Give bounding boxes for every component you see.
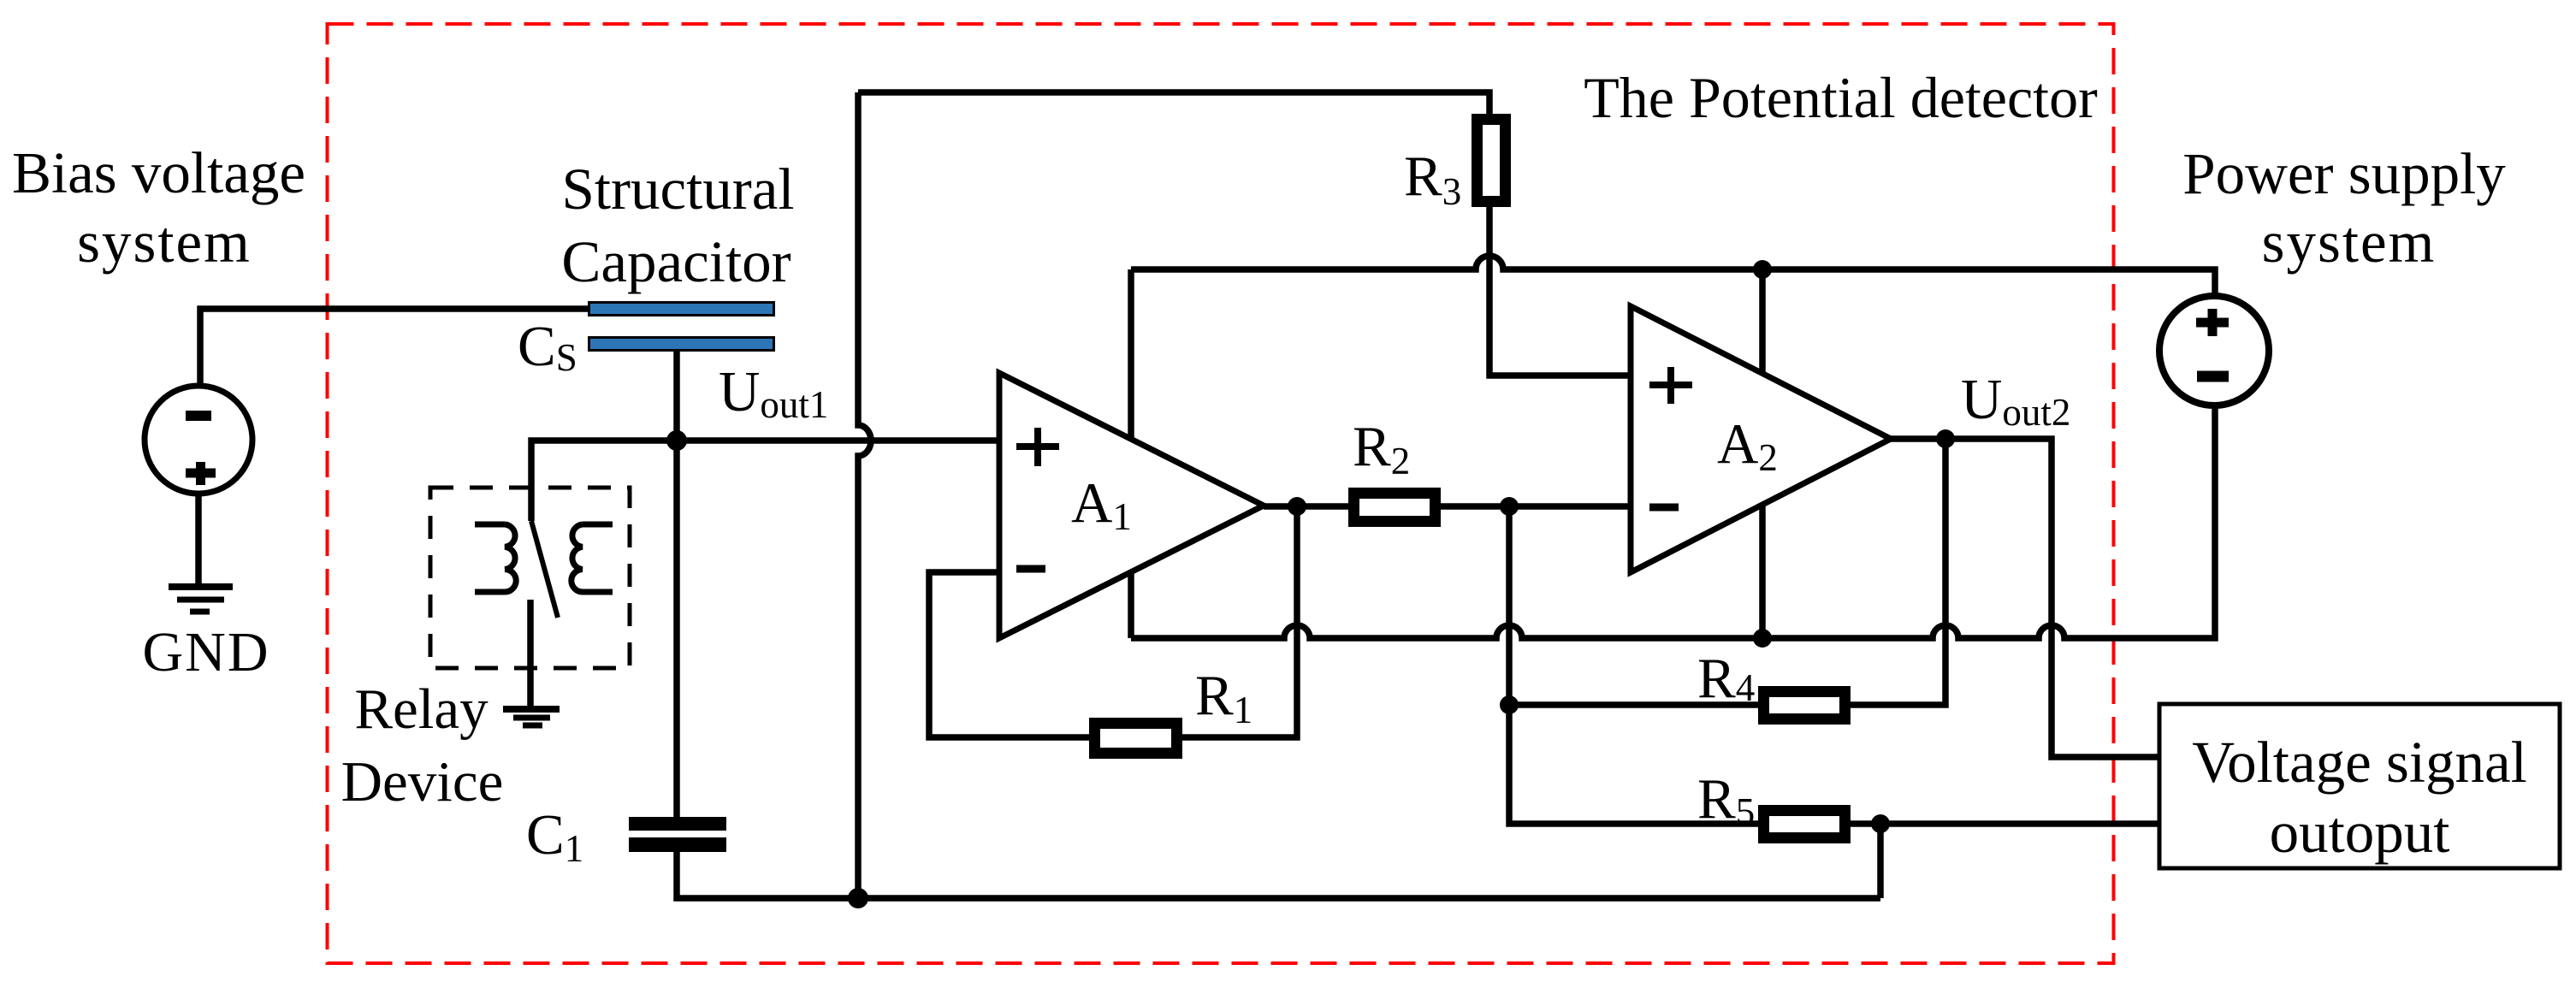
A1 V+ pin bbox=[1128, 269, 1134, 439]
op-amp A2 triangle bbox=[1631, 306, 1891, 572]
svg-text:Structural: Structural bbox=[561, 157, 794, 222]
power supply circle bbox=[2159, 296, 2269, 405]
wire R4 to Uout2 vertical bbox=[1851, 439, 1945, 705]
node Uout2 bbox=[1936, 429, 1955, 448]
svg-text:Capacitor: Capacitor bbox=[561, 229, 791, 294]
node Uout1 bbox=[666, 430, 687, 451]
wire R2 to A2 - input bbox=[1441, 503, 1631, 510]
capacitor C1 lower wire and bottom net bbox=[677, 852, 1880, 898]
svg-text:system: system bbox=[77, 210, 252, 275]
svg-text:The Potential detector: The Potential detector bbox=[1584, 65, 2098, 130]
plus sign in V1 bbox=[186, 462, 216, 485]
voltage source V1 (bias) bbox=[145, 386, 252, 494]
svg-text:Voltage signal: Voltage signal bbox=[2192, 730, 2527, 795]
A1 + symbol bbox=[1016, 428, 1059, 466]
plus sign in power supply bbox=[2196, 309, 2229, 336]
relay switch blade bbox=[531, 521, 558, 618]
negative supply rail with hops bbox=[1131, 405, 2215, 638]
node A2 V- on negative rail bbox=[1753, 629, 1772, 648]
relay coil right bbox=[583, 524, 613, 592]
wire node to R4 bbox=[1509, 701, 1758, 708]
node R4 left branch bbox=[1500, 695, 1519, 714]
relay switch lower contact bbox=[527, 600, 534, 707]
A1 - symbol bbox=[1016, 565, 1045, 573]
capacitor Cs top plate bbox=[589, 303, 774, 316]
A2 V+ pin bbox=[1759, 269, 1766, 374]
A2 - symbol bbox=[1649, 504, 1679, 512]
vertical net from R2 node down to R5 bbox=[1509, 506, 1758, 824]
resistor R5 body bbox=[1764, 811, 1845, 838]
svg-text:GND: GND bbox=[143, 621, 270, 683]
capacitor Cs bottom plate bbox=[589, 338, 774, 351]
A1 V- pin bbox=[1128, 572, 1134, 638]
relay coil left bbox=[475, 524, 505, 592]
wire R5 to box bbox=[1851, 820, 2159, 827]
A2 + symbol bbox=[1649, 367, 1692, 404]
wire R5 node down to bottom net bbox=[1877, 824, 1884, 898]
long vertical net with hop over Uout1 wire bbox=[858, 92, 871, 898]
minus sign in V1 bbox=[186, 411, 211, 421]
ground GND bbox=[169, 583, 233, 590]
node A1 output bbox=[1288, 497, 1306, 516]
wire V1 to ground bbox=[195, 494, 202, 583]
wire bias source to Cs top plate bbox=[200, 309, 588, 387]
positive supply rail with hop over R3 wire bbox=[1131, 256, 2215, 296]
svg-text:Power supply: Power supply bbox=[2182, 141, 2506, 206]
minus sign in power supply bbox=[2197, 371, 2229, 382]
A1 output wire to R2 bbox=[1264, 503, 1348, 510]
node A2 V+ on positive rail bbox=[1753, 260, 1772, 279]
resistor R4 body bbox=[1764, 692, 1845, 719]
resistor R3 body bbox=[1477, 120, 1506, 202]
svg-text:outoput: outoput bbox=[2270, 800, 2450, 865]
svg-text:system: system bbox=[2262, 210, 2437, 275]
ground under relay bbox=[503, 706, 560, 713]
node R2 right / A2 inverting input bbox=[1500, 497, 1519, 516]
A1 - input wire and feedback through R1 bbox=[929, 572, 1089, 737]
resistor R1 body bbox=[1095, 724, 1177, 754]
wire Cs bottom plate down through Uout1 node to C1 bbox=[673, 352, 680, 817]
A2 output wire to voltage signal box bbox=[1891, 439, 2159, 757]
wire R1 to A1 output node bbox=[1182, 506, 1297, 737]
svg-text:Bias voltage: Bias voltage bbox=[12, 140, 305, 205]
wire R3 bottom to A2 + input bbox=[1489, 207, 1631, 376]
node R5 right bbox=[1871, 814, 1890, 833]
wire Uout1 to A1 + input bbox=[677, 437, 999, 444]
svg-text:Relay: Relay bbox=[354, 677, 489, 741]
red dashed boundary: The Potential detector bbox=[328, 24, 2114, 963]
relay device dashed box bbox=[430, 488, 630, 668]
node bottom net junction bbox=[848, 888, 868, 908]
resistor R2 body bbox=[1354, 494, 1436, 522]
A2 V- pin bbox=[1759, 505, 1766, 638]
wire Uout1 node to relay switch bbox=[531, 441, 677, 521]
svg-text:Device: Device bbox=[341, 750, 504, 813]
voltage signal output box bbox=[2159, 704, 2560, 868]
top wire to R3 bbox=[858, 92, 1489, 114]
op-amp A1 triangle bbox=[999, 373, 1264, 638]
capacitor C1 top plate bbox=[629, 817, 726, 831]
capacitor C1 bottom plate bbox=[629, 837, 726, 852]
